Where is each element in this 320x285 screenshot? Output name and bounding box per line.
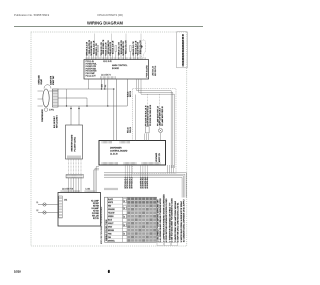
svg-text:START CAP: START CAP [52,75,55,85]
svg-text:YEL: YEL [105,84,107,87]
svg-text:BLK-16: BLK-16 [128,92,130,97]
svg-text:B: B [124,208,125,210]
svg-text:PC ASSY 12VDC: PC ASSY 12VDC [73,136,76,151]
svg-text:1 2 3 4 5 6 7 8 9: 1 2 3 4 5 6 7 8 9 [62,188,73,190]
svg-text:ASSY 12V: ASSY 12V [158,152,161,162]
svg-text:NEU WHT-16: NEU WHT-16 [155,66,157,76]
svg-text:ORG-16: ORG-16 [130,127,132,133]
svg-text:RELAY: RELAY [40,78,43,84]
svg-text:RY2 5V: RY2 5V [93,218,100,220]
svg-text:YELLOW: YELLOW [108,213,115,215]
svg-text:FPHC2378LP3 5995579919: FPHC2378LP3 5995579919 [183,40,185,66]
svg-text:FF DOOR SW ORG-18 J6: FF DOOR SW ORG-18 J6 [150,105,152,126]
svg-text:B: B [124,234,125,236]
svg-text:RED-16: RED-16 [128,127,130,133]
svg-text:BOARD: BOARD [112,67,120,70]
svg-text:RED-18 L1 CN: RED-18 L1 CN [96,43,98,56]
svg-text:FF LAMP ASSY RED-18: FF LAMP ASSY RED-18 [161,106,164,126]
svg-text:6: 6 [108,270,110,274]
svg-text:BROWN: BROWN [108,230,114,232]
svg-text:VIOLET: VIOLET [108,223,114,225]
svg-text:8. EVAP FAN 12VDC COND FAN 12: 8. EVAP FAN 12VDC COND FAN 12VDC 2.5W EA [177,202,180,242]
svg-text:COMPRESSOR: COMPRESSOR [42,109,44,122]
svg-text:DISPENSER: DISPENSER [110,148,122,150]
svg-text:P11 L1-OUT: P11 L1-OUT [86,75,97,77]
svg-text:INVERTER BOARD: INVERTER BOARD [71,134,74,151]
svg-text:WIRING DIAGRAM: WIRING DIAGRAM [87,20,124,25]
svg-text:PWR BOARD: PWR BOARD [146,65,149,78]
svg-text:BLUE: BLUE [108,220,112,222]
svg-text:UI BOARD: UI BOARD [155,152,158,162]
svg-text:GREEN: GREEN [108,216,114,218]
svg-text:B: B [124,201,125,203]
svg-text:J1 J2 J3: J1 J2 J3 [110,154,118,156]
svg-text:10. ICEMAKER 120VAC DISPENSER: 10. ICEMAKER 120VAC DISPENSER 12VDC SUPP… [182,199,185,243]
svg-text:CN1: CN1 [64,200,67,202]
svg-text:10/10: 10/10 [14,270,21,274]
svg-text:B: B [124,216,125,218]
svg-text:L2: L2 [37,210,39,212]
svg-text:CONTROL BOARD: CONTROL BOARD [110,150,128,153]
svg-text:J2 J1 J3 J5: J2 J1 J3 J5 [103,61,112,63]
svg-text:B: B [124,225,125,227]
svg-text:BLU-18 J2-6 CN: BLU-18 J2-6 CN [112,40,114,54]
svg-text:L1: L1 [37,202,39,204]
svg-text:WHT-16: WHT-16 [130,91,132,97]
svg-text:AUG MTR J8-4: AUG MTR J8-4 [146,177,149,189]
svg-text:GRN/YEL: GRN/YEL [108,240,115,242]
svg-text:FPHC2378LP3 (00): FPHC2378LP3 (00) [98,13,123,17]
svg-text:COMP MTR: COMP MTR [51,75,53,85]
svg-text:GRN: GRN [102,84,104,87]
svg-text:Publication No. 5995579919: Publication No. 5995579919 [14,13,50,17]
svg-text:OVERLOAD: OVERLOAD [38,74,41,84]
svg-text:1 2 3 4: 1 2 3 4 [86,188,91,190]
svg-text:1 2 3 4 5 6 7 8: 1 2 3 4 5 6 7 8 [101,75,111,77]
svg-text:6. SEE TECH DATA SHEET FOR DIA: 6. SEE TECH DATA SHEET FOR DIAGNOSTIC CO… [171,197,174,242]
svg-text:4. DOOR SWITCHES SHOWN WITH DO: 4. DOOR SWITCHES SHOWN WITH DOORS CLOSED [166,198,168,242]
svg-text:MAIN CONTROL: MAIN CONTROL [112,64,128,67]
svg-text:RED-18 J3-4 CN: RED-18 J3-4 CN [126,40,128,54]
svg-text:2. ALL WIRING 18 AWG UNLESS OT: 2. ALL WIRING 18 AWG UNLESS OTHERWISE NO… [159,198,162,243]
svg-text:WHITE: WHITE [108,202,113,204]
svg-text:WHT-14 COM S: WHT-14 COM S [56,115,58,128]
